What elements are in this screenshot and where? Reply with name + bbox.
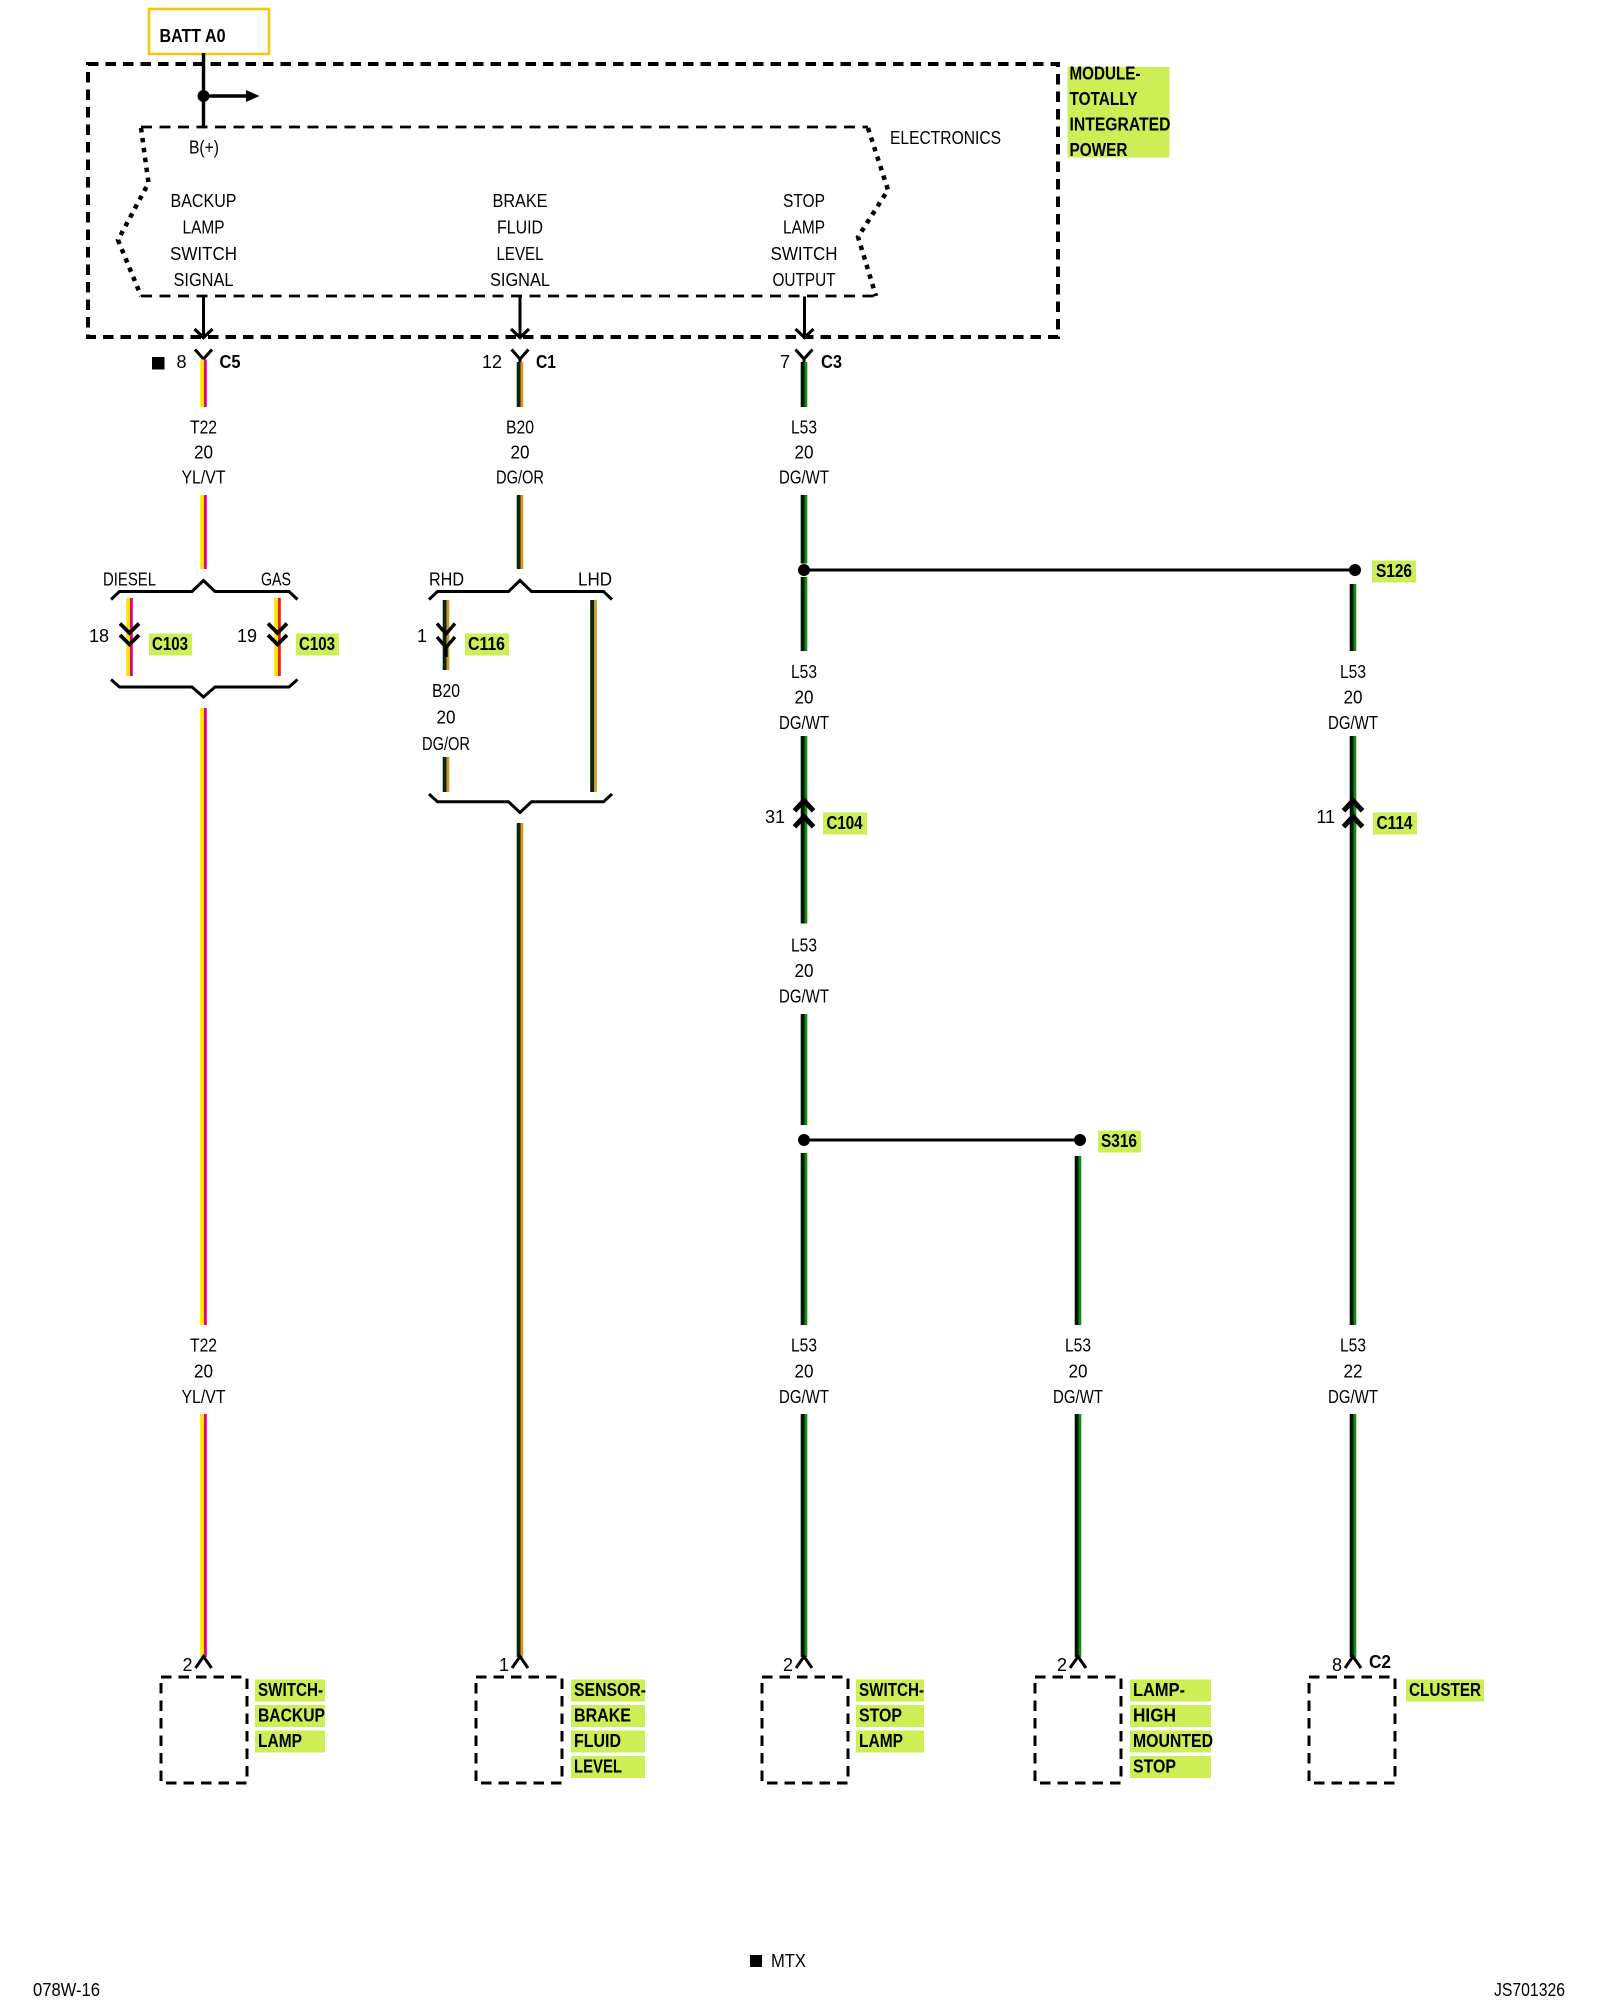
svg-text:B20: B20 [432,681,460,701]
svg-text:C1: C1 [536,352,556,372]
svg-text:STOP: STOP [783,191,825,211]
svg-text:2: 2 [1057,1655,1067,1675]
svg-text:LEVEL: LEVEL [574,1757,622,1777]
svg-text:STOP: STOP [1133,1757,1176,1777]
svg-text:C104: C104 [827,813,863,833]
svg-text:SWITCH: SWITCH [170,244,237,264]
svg-text:GAS: GAS [261,570,291,590]
svg-text:DG/WT: DG/WT [1053,1387,1103,1407]
svg-text:SENSOR-: SENSOR- [574,1680,646,1700]
svg-text:YL/VT: YL/VT [182,468,226,488]
svg-text:LAMP-: LAMP- [1133,1680,1185,1700]
svg-text:L53: L53 [1065,1336,1091,1356]
svg-text:C103: C103 [152,634,188,654]
svg-text:MODULE-: MODULE- [1070,64,1141,84]
svg-text:B(+): B(+) [189,138,219,158]
svg-text:B20: B20 [506,418,534,438]
svg-text:BACKUP: BACKUP [171,191,237,211]
svg-text:RHD: RHD [429,570,464,590]
svg-text:T22: T22 [190,1336,217,1356]
svg-text:DG/WT: DG/WT [1328,713,1378,733]
svg-text:C114: C114 [1377,813,1413,833]
svg-text:LHD: LHD [578,570,612,590]
svg-text:L53: L53 [1340,1336,1366,1356]
svg-text:20: 20 [1069,1362,1088,1382]
svg-text:DG/OR: DG/OR [496,468,544,488]
svg-text:20: 20 [1344,688,1363,708]
svg-text:LAMP: LAMP [183,217,225,237]
svg-text:C116: C116 [468,634,505,654]
svg-text:20: 20 [194,1362,213,1382]
svg-text:HIGH: HIGH [1133,1706,1176,1726]
svg-text:C103: C103 [299,634,335,654]
svg-text:C2: C2 [1369,1652,1391,1672]
svg-text:INTEGRATED: INTEGRATED [1070,115,1171,135]
svg-text:STOP: STOP [859,1706,902,1726]
svg-text:LAMP: LAMP [859,1731,903,1751]
svg-text:POWER: POWER [1070,140,1128,160]
svg-text:BACKUP: BACKUP [258,1706,325,1726]
svg-text:LAMP: LAMP [783,217,825,237]
svg-text:20: 20 [437,708,456,728]
svg-text:L53: L53 [791,418,817,438]
svg-text:20: 20 [194,443,213,463]
svg-text:TOTALLY: TOTALLY [1070,89,1138,109]
svg-text:MTX: MTX [771,1951,806,1971]
svg-text:DG/WT: DG/WT [779,987,829,1007]
svg-text:SWITCH: SWITCH [771,244,838,264]
svg-text:OUTPUT: OUTPUT [773,270,836,290]
svg-text:31: 31 [765,807,785,827]
svg-text:L53: L53 [791,936,817,956]
svg-text:7: 7 [780,352,790,372]
svg-text:20: 20 [795,961,814,981]
svg-text:19: 19 [237,626,257,646]
svg-text:FLUID: FLUID [574,1731,621,1751]
svg-text:MOUNTED: MOUNTED [1133,1731,1213,1751]
svg-text:8: 8 [1332,1655,1342,1675]
svg-text:C5: C5 [220,352,241,372]
svg-text:L53: L53 [791,662,817,682]
svg-text:DIESEL: DIESEL [103,570,156,590]
svg-text:YL/VT: YL/VT [182,1387,226,1407]
svg-text:FLUID: FLUID [497,217,543,237]
svg-text:BRAKE: BRAKE [493,191,548,211]
svg-text:2: 2 [182,1655,192,1675]
svg-text:DG/WT: DG/WT [1328,1387,1378,1407]
svg-text:DG/WT: DG/WT [779,468,829,488]
svg-text:T22: T22 [190,418,217,438]
svg-text:8: 8 [176,352,186,372]
svg-text:1: 1 [499,1655,509,1675]
svg-text:LEVEL: LEVEL [497,244,544,264]
svg-text:JS701326: JS701326 [1494,1980,1565,2000]
svg-text:ELECTRONICS: ELECTRONICS [890,128,1001,148]
svg-text:BATT A0: BATT A0 [160,26,226,46]
svg-text:LAMP: LAMP [258,1731,302,1751]
svg-text:SIGNAL: SIGNAL [490,270,550,290]
svg-text:S126: S126 [1376,561,1412,581]
svg-text:BRAKE: BRAKE [574,1706,631,1726]
svg-text:20: 20 [511,443,530,463]
svg-text:22: 22 [1344,1362,1363,1382]
svg-text:S316: S316 [1101,1131,1137,1151]
svg-text:SIGNAL: SIGNAL [174,270,234,290]
svg-text:20: 20 [795,688,814,708]
svg-text:1: 1 [417,626,427,646]
svg-text:L53: L53 [791,1336,817,1356]
svg-text:L53: L53 [1340,662,1366,682]
svg-text:18: 18 [89,626,109,646]
svg-text:CLUSTER: CLUSTER [1409,1680,1481,1700]
svg-text:DG/WT: DG/WT [779,1387,829,1407]
svg-text:20: 20 [795,443,814,463]
svg-text:SWITCH-: SWITCH- [859,1680,924,1700]
svg-text:DG/OR: DG/OR [422,734,470,754]
svg-text:078W-16: 078W-16 [33,1980,100,2000]
svg-text:2: 2 [783,1655,793,1675]
svg-text:SWITCH-: SWITCH- [258,1680,323,1700]
svg-text:DG/WT: DG/WT [779,713,829,733]
svg-text:11: 11 [1316,807,1335,827]
svg-text:20: 20 [795,1362,814,1382]
svg-text:C3: C3 [821,352,842,372]
svg-text:12: 12 [482,352,502,372]
